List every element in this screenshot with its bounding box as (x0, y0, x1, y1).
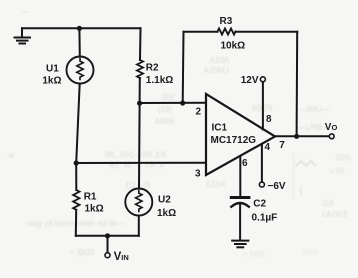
svg-text:K064: K064 (155, 117, 174, 126)
svg-text:2: 2 (196, 107, 202, 118)
svg-text:100: 100 (161, 93, 175, 102)
wire: pin 6 wire (239, 156, 241, 196)
svg-text:8: 8 (266, 114, 272, 125)
svg-text:2D@ =: 2D@ = (69, 248, 95, 257)
svg-text:C2: C2 (253, 199, 266, 210)
node: junction R2/U2 bridge node (137, 101, 142, 106)
capacitor C2 (231, 198, 249, 207)
wire: R1 top lead (75, 163, 77, 190)
terminal VIN (105, 253, 110, 258)
node: junction VIN tap (105, 233, 110, 238)
svg-text:0.1µF: 0.1µF (252, 212, 278, 223)
svg-text:U2: U2 (158, 194, 171, 205)
wire: top ground rail (22, 27, 141, 29)
wire: output wire pin 7 (275, 135, 329, 137)
svg-text:(H2): (H2) (335, 153, 351, 162)
svg-text:w: w (8, 151, 15, 160)
svg-text:1kΩ: 1kΩ (157, 208, 176, 219)
svg-text:6: 6 (242, 158, 248, 169)
svg-text:VO: VO (325, 122, 338, 133)
wire: U2 bottom lead (138, 216, 140, 236)
svg-text:3: 3 (195, 169, 201, 180)
resistor R2 (137, 60, 143, 78)
ground GND1 (top left) (15, 28, 31, 43)
svg-text:—U98—: —U98— (299, 105, 330, 114)
wire: pin 8 supply wire (262, 82, 264, 130)
svg-text:10kΩ: 10kΩ (221, 40, 246, 51)
resistor R3 (218, 29, 236, 35)
svg-text:R3: R3 (220, 16, 233, 27)
lamp U1 (67, 57, 94, 84)
svg-text:1kΩ: 1kΩ (85, 204, 104, 215)
svg-text:1.1kΩ: 1.1kΩ (146, 75, 173, 86)
svg-text:30M =: 30M = (242, 250, 265, 259)
resistor R1 (73, 190, 79, 210)
svg-text:K013: K013 (206, 180, 225, 189)
wire: bottom rail (76, 235, 139, 237)
node: junction U1 tap on ground rail (77, 26, 82, 31)
svg-text:VIN: VIN (114, 251, 129, 263)
wire: VIN stem (107, 236, 109, 253)
svg-text:7: 7 (279, 140, 285, 151)
terminal -6V (259, 182, 264, 187)
svg-text:U1: U1 (46, 63, 59, 74)
svg-text:4: 4 (265, 142, 271, 153)
svg-text:MC1712G: MC1712G (211, 135, 257, 146)
wire: pin 3 input wire (76, 162, 206, 164)
svg-text:R3, R5—243 ,2R: R3, R5—243 ,2R (105, 151, 166, 160)
svg-text:−6V: −6V (268, 181, 286, 192)
svg-text:A01A: A01A (209, 56, 229, 65)
node: junction output/feedback (294, 134, 299, 139)
node: junction left bridge node (74, 160, 79, 165)
wire: U2 top lead (crosses pin3 wire, no dot) (138, 103, 141, 188)
svg-text:IR =: IR = (329, 167, 344, 176)
wire: pin 4 supply wire (261, 144, 263, 182)
svg-text:1kΩ: 1kΩ (42, 75, 61, 86)
wire: feedback top left segment (184, 31, 218, 33)
wire: R2 bottom lead (139, 78, 141, 103)
node: junction feedback tap on pin2 wire (180, 100, 185, 105)
svg-text:LM01A: LM01A (203, 66, 229, 75)
svg-text:EH1AJ: EH1AJ (322, 210, 347, 219)
svg-text:ED: ED (322, 199, 333, 208)
op-amp IC1 MC1712G (206, 94, 275, 175)
terminal VO (329, 134, 334, 139)
wire: U1 top lead (78, 28, 80, 56)
wire: C2 ground lead (239, 205, 241, 240)
svg-text:PD04: PD04 (251, 104, 272, 113)
svg-text:(01): (01) (157, 105, 172, 114)
lamp U2 (125, 189, 152, 216)
wire: feedback right vertical (296, 32, 299, 137)
svg-text:12V: 12V (241, 75, 259, 86)
wire: U1 bottom lead (76, 83, 80, 163)
svg-text:08M: 08M (302, 248, 318, 257)
wire: R1 bottom lead (75, 210, 77, 236)
wire: feedback left vertical (182, 32, 185, 103)
wire: pin 2 input wire (140, 102, 206, 104)
wire: R2 top lead (139, 28, 142, 60)
svg-text:—: — (22, 7, 30, 16)
ground GND2 (below C2) (232, 241, 248, 248)
svg-text:R1: R1 (84, 192, 97, 203)
svg-text:IC1: IC1 (212, 123, 228, 134)
wire: feedback top right segment (236, 31, 298, 33)
svg-text:R2: R2 (146, 62, 159, 73)
terminal 12V (260, 77, 265, 82)
